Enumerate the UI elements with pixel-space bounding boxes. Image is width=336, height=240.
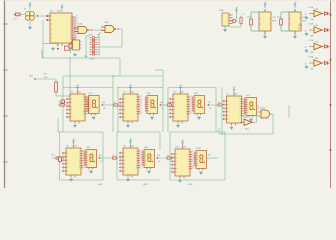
svg-text:LS90: LS90 bbox=[182, 147, 186, 149]
resistor network RN1 bbox=[89, 35, 99, 56]
ground U10 bbox=[178, 179, 182, 182]
svg-text:DS10: DS10 bbox=[196, 148, 201, 150]
svg-text:1k: 1k bbox=[167, 102, 169, 104]
ground U4 bbox=[73, 124, 77, 127]
LED D16 bbox=[325, 28, 331, 32]
ground U14 bbox=[293, 34, 297, 38]
ground U8 bbox=[69, 178, 73, 181]
counter U6 minutes units bbox=[169, 92, 191, 124]
svg-text:1k: 1k bbox=[167, 155, 169, 157]
display DS4 seconds units bbox=[86, 93, 99, 116]
wire dist bus bbox=[63, 70, 216, 132]
sheet border left bbox=[3, 0, 8, 188]
power +5V U7 bbox=[232, 87, 236, 93]
power +5V U6 bbox=[179, 85, 183, 91]
capacitor C14 bbox=[277, 12, 295, 31]
svg-text:1Hz: 1Hz bbox=[84, 56, 88, 58]
IC U1 CD4060 bbox=[46, 11, 77, 44]
svg-text:GND: GND bbox=[98, 184, 103, 186]
wire gate loop bbox=[99, 29, 122, 56]
ground U9 bbox=[126, 178, 130, 181]
wire U1 bottom bbox=[57, 43, 62, 51]
ground U13 bbox=[263, 34, 267, 38]
regulator U14 bbox=[289, 9, 307, 34]
sheet border top bbox=[0, 0, 336, 2]
display DS6 minutes units bbox=[192, 93, 205, 116]
sheet border right bbox=[330, 0, 332, 188]
ground DS5 bbox=[150, 116, 154, 119]
ground DS6 bbox=[197, 116, 201, 119]
svg-text:A-G: A-G bbox=[298, 27, 302, 30]
counter U7 minutes tens bbox=[223, 94, 245, 126]
svg-text:LS90: LS90 bbox=[73, 146, 77, 148]
power +5V U14 bbox=[293, 2, 297, 8]
svg-text:U2B: U2B bbox=[104, 22, 109, 24]
wire J1 bbox=[225, 21, 241, 28]
ground U6 bbox=[176, 124, 180, 127]
regulator U13 bbox=[259, 9, 277, 34]
svg-text:GND: GND bbox=[90, 59, 95, 61]
wire box B3 bbox=[170, 132, 225, 180]
crystal X1 bbox=[24, 9, 34, 21]
svg-text:SEG: SEG bbox=[298, 25, 303, 27]
buffer U18 bbox=[305, 55, 325, 66]
LED D2 bbox=[59, 157, 62, 162]
connector J1 USB bbox=[219, 10, 233, 26]
wire RN1 bbox=[86, 36, 95, 61]
ground DS8 bbox=[89, 170, 93, 173]
sheet background bbox=[0, 0, 336, 188]
svg-text:LS90: LS90 bbox=[180, 92, 184, 94]
ground D1 bbox=[73, 53, 77, 56]
svg-text:LS90: LS90 bbox=[233, 94, 237, 96]
svg-text:LS90: LS90 bbox=[130, 146, 134, 148]
ground U15 bbox=[305, 16, 315, 21]
svg-text:LS04: LS04 bbox=[315, 58, 319, 60]
net link QB2 bbox=[156, 155, 175, 163]
IC U2 small bbox=[71, 38, 82, 50]
LED D15 bbox=[325, 12, 331, 16]
net link QB1 bbox=[98, 155, 123, 163]
wire gate loop S4 bbox=[219, 87, 289, 135]
ground U18 bbox=[305, 66, 315, 71]
display DS9 hours tens bbox=[142, 147, 155, 170]
counter U10 alarm bbox=[171, 147, 193, 179]
ground U7 bbox=[230, 126, 234, 129]
power +5V crystal bbox=[28, 2, 32, 8]
capacitor C13 bbox=[247, 12, 265, 31]
ground DS9 bbox=[147, 170, 151, 173]
svg-text:1k: 1k bbox=[305, 14, 307, 16]
svg-text:1k: 1k bbox=[305, 63, 307, 65]
power +5V U1 bbox=[60, 4, 64, 13]
svg-text:DS5: DS5 bbox=[147, 93, 151, 95]
svg-text:DS7: DS7 bbox=[246, 95, 250, 97]
svg-text:DS8: DS8 bbox=[86, 147, 90, 149]
svg-text:RN1: RN1 bbox=[89, 35, 93, 37]
svg-text:1k: 1k bbox=[218, 102, 220, 104]
svg-text:1k: 1k bbox=[305, 30, 307, 32]
svg-text:1k: 1k bbox=[97, 35, 99, 37]
display DS8 hours units bbox=[84, 147, 97, 170]
AND gate U12A bbox=[258, 107, 273, 119]
ground U1 bbox=[51, 47, 55, 50]
buffer U17 bbox=[305, 39, 325, 50]
counter U9 hours tens bbox=[119, 146, 141, 178]
LED D18 bbox=[325, 61, 331, 65]
net link in2 bbox=[51, 155, 66, 160]
svg-text:C1: C1 bbox=[243, 14, 245, 16]
power +5V U8 bbox=[72, 139, 76, 145]
ground bottom 3 bbox=[188, 184, 193, 186]
counter U8 hours units bbox=[62, 146, 84, 178]
LED S1 bbox=[61, 100, 65, 103]
wire box B1 bbox=[58, 118, 103, 180]
counter U4 seconds units bbox=[66, 92, 88, 124]
svg-text:10k: 10k bbox=[44, 77, 47, 79]
wire bbox=[20, 10, 50, 26]
svg-text:1k: 1k bbox=[305, 47, 307, 49]
svg-text:DS6: DS6 bbox=[194, 93, 198, 95]
net link out3 bbox=[207, 155, 218, 159]
ground DS10 bbox=[199, 171, 203, 174]
svg-text:U12A: U12A bbox=[260, 107, 265, 110]
LED D1 bbox=[69, 44, 72, 53]
capacitor C1 bbox=[240, 14, 245, 25]
resistor R1 bbox=[14, 13, 21, 21]
net label col bbox=[298, 25, 303, 30]
svg-text:LS04: LS04 bbox=[315, 42, 319, 44]
display DS5 seconds tens bbox=[145, 93, 158, 116]
svg-text:USB: USB bbox=[219, 10, 224, 12]
wire osc drop bbox=[69, 58, 70, 97]
net link in1 bbox=[58, 102, 70, 107]
wire U1 feedback bbox=[43, 16, 58, 58]
svg-text:LS04: LS04 bbox=[315, 9, 319, 11]
resistor R2 bbox=[29, 74, 70, 97]
net link QA3 bbox=[207, 102, 226, 110]
svg-text:LS90: LS90 bbox=[130, 92, 134, 94]
ground bottom 2 bbox=[143, 184, 148, 186]
counter U5 seconds tens bbox=[119, 92, 141, 124]
ground U16 bbox=[305, 33, 315, 38]
wire 1Hz line bbox=[42, 50, 120, 76]
power +5V U13 bbox=[263, 2, 267, 8]
power +5V U9 bbox=[129, 139, 133, 145]
ground DS7 bbox=[249, 118, 253, 121]
ground DS4 bbox=[92, 116, 96, 119]
svg-text:DS9: DS9 bbox=[144, 147, 148, 149]
wire gate link bbox=[93, 29, 106, 31]
svg-text:GND: GND bbox=[188, 184, 193, 186]
svg-text:U11A: U11A bbox=[243, 116, 248, 119]
LED D17 bbox=[325, 45, 331, 49]
svg-text:7805: 7805 bbox=[272, 21, 276, 23]
buffer U16 bbox=[305, 22, 325, 33]
svg-text:U2A: U2A bbox=[78, 23, 83, 26]
no-connect flag bbox=[65, 46, 74, 51]
svg-text:LS04: LS04 bbox=[315, 25, 319, 27]
svg-text:1k: 1k bbox=[114, 102, 116, 104]
ground J1 bbox=[223, 29, 227, 32]
svg-text:C14: C14 bbox=[277, 17, 280, 19]
wire box B2 bbox=[117, 132, 160, 180]
ground crystal bbox=[28, 26, 32, 29]
svg-text:7805: 7805 bbox=[302, 21, 306, 23]
svg-text:4060: 4060 bbox=[57, 11, 61, 13]
net link QA2 bbox=[159, 102, 173, 110]
NAND gate U2B bbox=[101, 22, 119, 33]
power +5V U5 bbox=[129, 85, 133, 91]
svg-text:1k: 1k bbox=[113, 155, 115, 157]
svg-text:LS90: LS90 bbox=[77, 92, 81, 94]
svg-text:C13: C13 bbox=[247, 17, 250, 19]
ground bottom 1 bbox=[98, 184, 103, 186]
display DS10 alarm bbox=[194, 148, 207, 171]
buffer U15 bbox=[305, 6, 325, 17]
net link QA1 bbox=[101, 101, 123, 110]
display DS7 minutes tens bbox=[244, 95, 257, 118]
svg-text:DS4: DS4 bbox=[89, 93, 93, 95]
power +5V J1 bbox=[235, 7, 239, 19]
svg-text:U2: U2 bbox=[73, 38, 75, 40]
power +5V U4 bbox=[76, 85, 80, 91]
NAND gate U2A bbox=[74, 23, 93, 34]
ground U17 bbox=[305, 49, 315, 54]
ground U5 bbox=[126, 124, 130, 127]
diode D3 bbox=[231, 19, 238, 23]
power +5V U10 bbox=[181, 140, 185, 146]
buffer U11A bbox=[241, 116, 255, 131]
svg-text:GND: GND bbox=[143, 184, 148, 186]
